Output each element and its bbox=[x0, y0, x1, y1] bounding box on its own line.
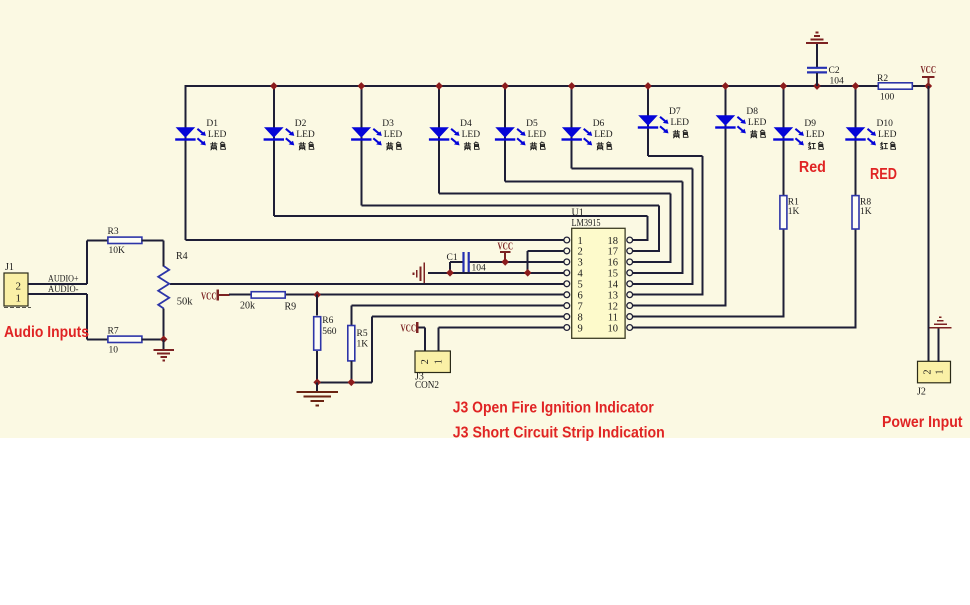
power symbol VCC at J3 bbox=[416, 322, 418, 333]
pin label 2 of J1 bbox=[16, 281, 22, 293]
wire pin 8 drop bbox=[371, 317, 373, 383]
label LED of D1 bbox=[208, 130, 227, 140]
pin 13 of U1 bbox=[627, 292, 633, 298]
designator D8 bbox=[746, 107, 758, 117]
svg-text:LED: LED bbox=[528, 130, 547, 140]
svg-text:C1: C1 bbox=[447, 253, 458, 263]
label VCC top right bbox=[921, 65, 937, 76]
pin 6 of U1 bbox=[564, 292, 570, 298]
ground below R4 bbox=[154, 350, 174, 361]
value R9 bbox=[240, 301, 255, 312]
annotation J3 open fire bbox=[453, 399, 654, 416]
designator J3 bbox=[415, 372, 424, 383]
char red-1 of D9 bbox=[809, 142, 816, 149]
wire C1 to VCC junction bbox=[470, 261, 506, 263]
wire C1 branch down bbox=[449, 262, 451, 273]
LED D8 symbol bbox=[715, 115, 746, 133]
wire D4 column bbox=[438, 85, 440, 193]
value U1 LM3915 bbox=[572, 218, 601, 229]
designator C1 bbox=[447, 253, 458, 263]
designator D5 bbox=[526, 119, 538, 129]
wire pin 8 lead bbox=[372, 316, 564, 318]
pin 3 of U1 bbox=[564, 259, 570, 265]
svg-text:VCC: VCC bbox=[921, 65, 937, 76]
char yellow-2 of D6 bbox=[607, 142, 612, 149]
wire D3 column bbox=[360, 85, 362, 206]
ground above C2 bbox=[806, 33, 828, 44]
LED D6 symbol bbox=[562, 127, 593, 145]
svg-text:104: 104 bbox=[830, 77, 845, 87]
svg-text:LED: LED bbox=[594, 130, 613, 140]
svg-text:D9: D9 bbox=[804, 119, 816, 129]
designator D10 bbox=[877, 119, 894, 129]
annotation RED bbox=[870, 166, 897, 183]
pin 1 of U1 bbox=[564, 237, 570, 243]
svg-text:2: 2 bbox=[16, 281, 22, 293]
designator D3 bbox=[382, 119, 394, 129]
capacitor C1 bbox=[464, 252, 469, 274]
wire IC right pin 16 lead bbox=[633, 261, 672, 263]
svg-text:9: 9 bbox=[578, 323, 583, 334]
char yellow-2 of D4 bbox=[474, 142, 479, 149]
power symbol VCC at pin 3 bbox=[500, 252, 510, 262]
resistor R1 bbox=[780, 196, 787, 229]
svg-text:LED: LED bbox=[878, 130, 897, 140]
net label AUDIO- bbox=[48, 285, 79, 295]
pin 15 of U1 bbox=[627, 270, 633, 276]
pin number 15 bbox=[608, 269, 619, 280]
ground at C1 rail bbox=[413, 263, 424, 285]
wire ground stem below R6 bbox=[316, 382, 318, 391]
value R4 bbox=[177, 297, 194, 308]
wire D2 vertical drop bbox=[647, 216, 649, 240]
designator D9 bbox=[804, 119, 816, 129]
svg-text:VCC: VCC bbox=[201, 291, 217, 302]
svg-text:16: 16 bbox=[608, 258, 619, 269]
svg-text:D10: D10 bbox=[877, 119, 894, 129]
wire IC right pin 13 lead bbox=[633, 294, 704, 296]
resistor R3 bbox=[108, 237, 142, 243]
wire C2 lower lead bbox=[816, 73, 818, 86]
pin 2 of U1 bbox=[564, 248, 570, 254]
svg-text:R9: R9 bbox=[285, 302, 297, 313]
svg-text:1: 1 bbox=[16, 293, 22, 305]
designator R3 bbox=[108, 227, 119, 237]
pin number 14 bbox=[608, 280, 619, 291]
pin label 2 of J3 bbox=[420, 359, 431, 364]
designator R7 bbox=[108, 327, 119, 337]
svg-text:1: 1 bbox=[935, 370, 946, 375]
designator D2 bbox=[295, 119, 307, 129]
svg-text:R4: R4 bbox=[176, 251, 188, 262]
designator R5 bbox=[357, 329, 368, 339]
char yellow-1 of D4 bbox=[464, 142, 470, 150]
node bus junction at D3 bbox=[357, 82, 365, 90]
LED D5 symbol bbox=[495, 127, 526, 145]
wire AUDIO+ net bbox=[28, 283, 87, 285]
wire IC right pin 12 lead bbox=[633, 305, 727, 307]
designator C2 bbox=[829, 66, 840, 76]
svg-text:50k: 50k bbox=[177, 297, 194, 308]
wire pin 4 ground rail bbox=[428, 272, 564, 274]
label LED of D5 bbox=[528, 130, 547, 140]
svg-text:2: 2 bbox=[578, 247, 583, 258]
wire D5 horizontal run bbox=[505, 180, 682, 182]
value J3 CON2 bbox=[415, 380, 439, 391]
label VCC at pin 3 bbox=[498, 242, 514, 253]
svg-text:20k: 20k bbox=[240, 301, 255, 312]
wire D4 horizontal run bbox=[439, 192, 671, 194]
wire C1 left lead bbox=[450, 261, 463, 263]
node bus junction at D2 bbox=[270, 82, 278, 90]
svg-text:J1: J1 bbox=[5, 262, 14, 273]
wire R4 bottom lead bbox=[163, 309, 165, 340]
char yellow-1 of D3 bbox=[387, 142, 393, 150]
svg-text:C2: C2 bbox=[829, 66, 840, 76]
designator R4 bbox=[176, 251, 188, 262]
node bus junction at D6 bbox=[568, 82, 576, 90]
wire ground rail bbox=[317, 381, 372, 383]
pin number 2 bbox=[578, 247, 583, 258]
node bus junction at D7 bbox=[644, 82, 652, 90]
char yellow-2 of D8 bbox=[760, 130, 765, 137]
wire D10 column bbox=[855, 85, 857, 328]
wire IC right pin 18 lead bbox=[633, 239, 649, 241]
node R6 top junction bbox=[313, 291, 321, 299]
pin label 1 of J1 bbox=[16, 293, 22, 305]
resistor R7 bbox=[108, 336, 142, 342]
pin 9 of U1 bbox=[564, 325, 570, 331]
svg-text:R7: R7 bbox=[108, 327, 119, 337]
pin 8 of U1 bbox=[564, 314, 570, 320]
char yellow-2 of D5 bbox=[540, 142, 545, 149]
pin 5 of U1 bbox=[564, 281, 570, 287]
resistor R6 bbox=[314, 317, 321, 350]
annotation Power Input bbox=[882, 414, 963, 431]
pin 16 of U1 bbox=[627, 259, 633, 265]
svg-text:10: 10 bbox=[109, 346, 119, 356]
svg-text:D2: D2 bbox=[295, 119, 307, 129]
pin number 1 bbox=[578, 236, 583, 247]
wire R9 to pin 6 bbox=[284, 294, 564, 296]
label VCC at R9 bbox=[201, 291, 217, 302]
svg-text:R3: R3 bbox=[108, 227, 119, 237]
char yellow-1 of D8 bbox=[751, 130, 757, 138]
svg-text:D6: D6 bbox=[593, 119, 605, 129]
wire VCC to J3 bbox=[418, 327, 425, 329]
wire D7 vertical drop bbox=[702, 156, 704, 295]
wire VCC to R9 bbox=[229, 294, 251, 296]
LED D4 symbol bbox=[429, 127, 460, 145]
ground below R6 bbox=[297, 392, 339, 406]
wire pin 7 lead bbox=[351, 305, 564, 307]
svg-text:D4: D4 bbox=[460, 119, 472, 129]
node bus junction at VCC bbox=[924, 82, 932, 90]
node ground rail left junction bbox=[313, 378, 321, 386]
node bus junction at C2 bbox=[813, 82, 821, 90]
label LED of D2 bbox=[296, 130, 315, 140]
svg-text:Red: Red bbox=[799, 159, 826, 176]
designator R6 bbox=[322, 316, 333, 326]
connector J2 body bbox=[918, 361, 951, 383]
svg-text:8: 8 bbox=[578, 312, 583, 323]
value R3 bbox=[109, 246, 126, 256]
connector J1 body bbox=[4, 273, 28, 306]
annotation Red bbox=[799, 159, 826, 176]
pin 10 of U1 bbox=[627, 325, 633, 331]
svg-text:1K: 1K bbox=[788, 207, 800, 217]
label VCC at J3 bbox=[401, 324, 417, 335]
svg-text:CON2: CON2 bbox=[415, 380, 439, 391]
svg-text:11: 11 bbox=[608, 312, 618, 323]
svg-text:1K: 1K bbox=[357, 340, 369, 350]
pin number 7 bbox=[578, 301, 583, 312]
wire J3 pin 1 lead bbox=[438, 328, 440, 352]
wire to R7 bbox=[87, 338, 109, 340]
wire R4 wiper to pin 5 bbox=[170, 283, 564, 285]
svg-text:LED: LED bbox=[806, 130, 825, 140]
svg-text:10K: 10K bbox=[109, 246, 126, 256]
wire D5 vertical drop bbox=[681, 181, 683, 272]
wire D9 column bbox=[782, 85, 784, 317]
svg-text:7: 7 bbox=[578, 301, 583, 312]
designator D7 bbox=[669, 107, 681, 117]
wire IC right pin 10 lead bbox=[633, 327, 857, 329]
wire D1 to pin 1 bbox=[185, 239, 564, 241]
svg-text:VCC: VCC bbox=[401, 324, 417, 335]
char yellow-2 of D1 bbox=[220, 142, 225, 149]
designator R8 bbox=[860, 198, 871, 208]
wire R5 bottom lead bbox=[350, 361, 352, 383]
LED D9 symbol bbox=[773, 127, 804, 145]
LED D1 symbol bbox=[175, 127, 206, 145]
pin number 11 bbox=[608, 312, 618, 323]
svg-text:17: 17 bbox=[608, 247, 619, 258]
pin 18 of U1 bbox=[627, 237, 633, 243]
label LED of D8 bbox=[748, 118, 767, 128]
wire R7 to ground node bbox=[141, 338, 163, 340]
svg-text:LED: LED bbox=[208, 130, 227, 140]
label LED of D3 bbox=[384, 130, 403, 140]
pin 12 of U1 bbox=[627, 303, 633, 309]
pin 17 of U1 bbox=[627, 248, 633, 254]
pin 11 of U1 bbox=[627, 314, 633, 320]
wire D3 vertical drop bbox=[658, 206, 660, 251]
pin 4 of U1 bbox=[564, 270, 570, 276]
svg-text:R8: R8 bbox=[860, 198, 871, 208]
value R5 bbox=[357, 340, 369, 350]
LED D10 symbol bbox=[845, 127, 876, 145]
svg-text:15: 15 bbox=[608, 269, 619, 280]
svg-text:LED: LED bbox=[296, 130, 315, 140]
pin number 5 bbox=[578, 280, 583, 291]
resistor R9 bbox=[251, 292, 285, 298]
wire IC right pin 15 lead bbox=[633, 272, 684, 274]
svg-text:R2: R2 bbox=[877, 74, 888, 84]
svg-text:4: 4 bbox=[578, 269, 584, 280]
svg-text:100: 100 bbox=[880, 93, 895, 103]
svg-text:D1: D1 bbox=[206, 119, 218, 129]
svg-text:LM3915: LM3915 bbox=[572, 218, 601, 229]
svg-text:Power Input: Power Input bbox=[882, 414, 963, 431]
svg-text:LED: LED bbox=[462, 130, 481, 140]
svg-text:AUDIO+: AUDIO+ bbox=[48, 275, 79, 285]
value C2 bbox=[830, 77, 845, 87]
wire ground stem R4 bbox=[163, 339, 165, 350]
svg-text:U1: U1 bbox=[572, 208, 584, 219]
svg-text:D8: D8 bbox=[746, 107, 758, 117]
svg-text:LED: LED bbox=[671, 118, 690, 128]
designator J2 bbox=[917, 387, 926, 398]
wire IC right pin 17 lead bbox=[633, 250, 661, 252]
designator R1 bbox=[788, 198, 799, 208]
svg-text:D3: D3 bbox=[382, 119, 394, 129]
node C1 branch junction bbox=[446, 269, 454, 277]
svg-text:R6: R6 bbox=[322, 316, 333, 326]
label LED of D9 bbox=[806, 130, 825, 140]
char red-2 of D9 bbox=[818, 142, 823, 149]
node R5 bottom junction bbox=[347, 378, 355, 386]
svg-text:18: 18 bbox=[608, 236, 619, 247]
svg-text:J2: J2 bbox=[917, 387, 926, 398]
wire R6 top lead bbox=[316, 295, 318, 316]
svg-text:D7: D7 bbox=[669, 107, 681, 117]
pin number 8 bbox=[578, 312, 583, 323]
char yellow-1 of D1 bbox=[211, 142, 217, 150]
value R7 bbox=[109, 346, 119, 356]
annotation Audio Inputs bbox=[4, 324, 89, 341]
svg-text:R5: R5 bbox=[357, 329, 368, 339]
node R4 R7 ground junction bbox=[160, 335, 168, 343]
char yellow-1 of D7 bbox=[673, 130, 679, 138]
annotation J3 short circuit bbox=[453, 424, 665, 441]
pin number 4 bbox=[578, 269, 584, 280]
node bus junction at D10 bbox=[852, 82, 860, 90]
pin number 18 bbox=[608, 236, 619, 247]
power symbol VCC top right bbox=[922, 77, 935, 86]
svg-text:VCC: VCC bbox=[498, 242, 514, 253]
label LED of D6 bbox=[594, 130, 613, 140]
J1 footer mark bbox=[4, 306, 31, 308]
wire R3 to R4 bbox=[141, 239, 163, 241]
pin number 3 bbox=[578, 258, 583, 269]
designator D1 bbox=[206, 119, 218, 129]
pin number 13 bbox=[608, 291, 619, 302]
wire D6 vertical drop bbox=[691, 168, 693, 283]
svg-text:560: 560 bbox=[322, 327, 337, 337]
svg-text:13: 13 bbox=[608, 291, 619, 302]
svg-text:J3 Open Fire Ignition Indicato: J3 Open Fire Ignition Indicator bbox=[453, 399, 654, 416]
wire D8 column bbox=[724, 85, 726, 306]
pin 14 of U1 bbox=[627, 281, 633, 287]
pin number 6 bbox=[578, 291, 583, 302]
wire AUDIO+ riser bbox=[86, 240, 88, 283]
designator J1 bbox=[5, 262, 14, 273]
svg-text:12: 12 bbox=[608, 301, 619, 312]
char red-2 of D10 bbox=[891, 142, 896, 149]
pin number 16 bbox=[608, 258, 619, 269]
wire D2 horizontal run bbox=[274, 215, 648, 217]
wire top VCC bus bbox=[184, 85, 929, 87]
node VCC pin 3 junction bbox=[501, 258, 509, 266]
pin number 9 bbox=[578, 323, 583, 334]
svg-text:LED: LED bbox=[384, 130, 403, 140]
connector J3 body bbox=[415, 351, 450, 373]
pin number 17 bbox=[608, 247, 619, 258]
svg-text:10: 10 bbox=[608, 323, 619, 334]
resistor R5 bbox=[348, 326, 355, 361]
op-amp U1 LM3915 body bbox=[572, 228, 625, 338]
resistor R8 bbox=[852, 196, 859, 229]
value R1 bbox=[788, 207, 800, 217]
pin 7 of U1 bbox=[564, 303, 570, 309]
node bus junction at D9 bbox=[780, 82, 788, 90]
char yellow-1 of D2 bbox=[299, 142, 305, 150]
svg-text:Audio Inputs: Audio Inputs bbox=[4, 324, 89, 341]
svg-text:1: 1 bbox=[578, 236, 583, 247]
wire R6 bottom lead bbox=[316, 351, 318, 382]
LED D2 symbol bbox=[264, 127, 295, 145]
designator R9 bbox=[285, 302, 297, 313]
char red-1 of D10 bbox=[881, 142, 888, 149]
char yellow-2 of D3 bbox=[396, 142, 401, 149]
char yellow-1 of D5 bbox=[530, 142, 536, 150]
svg-text:14: 14 bbox=[608, 280, 619, 291]
wire VCC column to J2 bbox=[927, 86, 929, 362]
node bus junction at D4 bbox=[435, 82, 443, 90]
node bus junction at D8 bbox=[722, 82, 730, 90]
pin number 10 bbox=[608, 323, 619, 334]
wire to R3 bbox=[87, 239, 109, 241]
wire IC right pin 11 lead bbox=[633, 316, 785, 318]
value R8 bbox=[860, 207, 872, 217]
wire J3 pin 2 lead bbox=[424, 328, 426, 352]
char yellow-2 of D2 bbox=[309, 142, 314, 149]
wire D7 horizontal run bbox=[648, 155, 703, 157]
wire C2 upper lead bbox=[816, 44, 818, 67]
wire AUDIO- dropper bbox=[86, 294, 88, 339]
wire pin 2 lead bbox=[528, 250, 564, 252]
wire IC right pin 14 lead bbox=[633, 283, 694, 285]
svg-text:D5: D5 bbox=[526, 119, 538, 129]
wire R5 top lead bbox=[350, 306, 352, 326]
designator D4 bbox=[460, 119, 472, 129]
svg-text:J3 Short Circuit Strip Indicat: J3 Short Circuit Strip Indication bbox=[453, 424, 665, 441]
value R2 bbox=[880, 93, 895, 103]
svg-text:1: 1 bbox=[433, 359, 444, 364]
wire D6 horizontal run bbox=[572, 167, 693, 169]
wire ground to J2 bbox=[938, 329, 940, 363]
svg-text:3: 3 bbox=[578, 258, 583, 269]
node bus junction at D5 bbox=[501, 82, 509, 90]
node pin 2 branch junction bbox=[524, 269, 532, 277]
capacitor C2 bbox=[807, 68, 827, 73]
wire pin 9 lead bbox=[439, 327, 564, 329]
wire D2 column bbox=[273, 85, 275, 216]
wire D6 column bbox=[571, 85, 573, 168]
svg-text:2: 2 bbox=[922, 370, 933, 375]
svg-text:LED: LED bbox=[748, 118, 767, 128]
wire D3 horizontal run bbox=[361, 205, 659, 207]
char yellow-1 of D6 bbox=[597, 142, 603, 150]
char yellow-2 of D7 bbox=[683, 130, 688, 137]
pin label 1 of J2 bbox=[935, 370, 946, 375]
pin label 2 of J2 bbox=[922, 370, 933, 375]
svg-text:5: 5 bbox=[578, 280, 583, 291]
LED D3 symbol bbox=[351, 127, 382, 145]
wire D1 column bbox=[184, 85, 186, 240]
resistor R4 potentiometer zigzag bbox=[158, 266, 169, 309]
